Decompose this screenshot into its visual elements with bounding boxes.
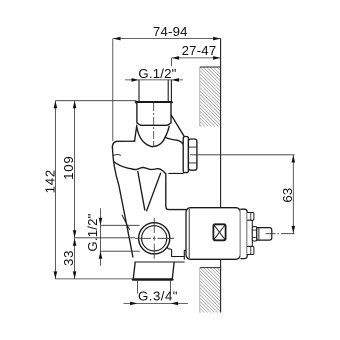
svg-text:74-94: 74-94	[153, 24, 188, 39]
svg-text:G.1/2": G.1/2"	[85, 213, 100, 251]
svg-text:27-47: 27-47	[182, 43, 217, 58]
svg-text:G.3/4": G.3/4"	[138, 289, 178, 304]
svg-text:63: 63	[280, 188, 295, 203]
svg-text:G.1/2": G.1/2"	[138, 66, 176, 81]
svg-text:33: 33	[61, 250, 76, 266]
svg-text:109: 109	[61, 155, 76, 179]
svg-text:142: 142	[42, 169, 57, 193]
